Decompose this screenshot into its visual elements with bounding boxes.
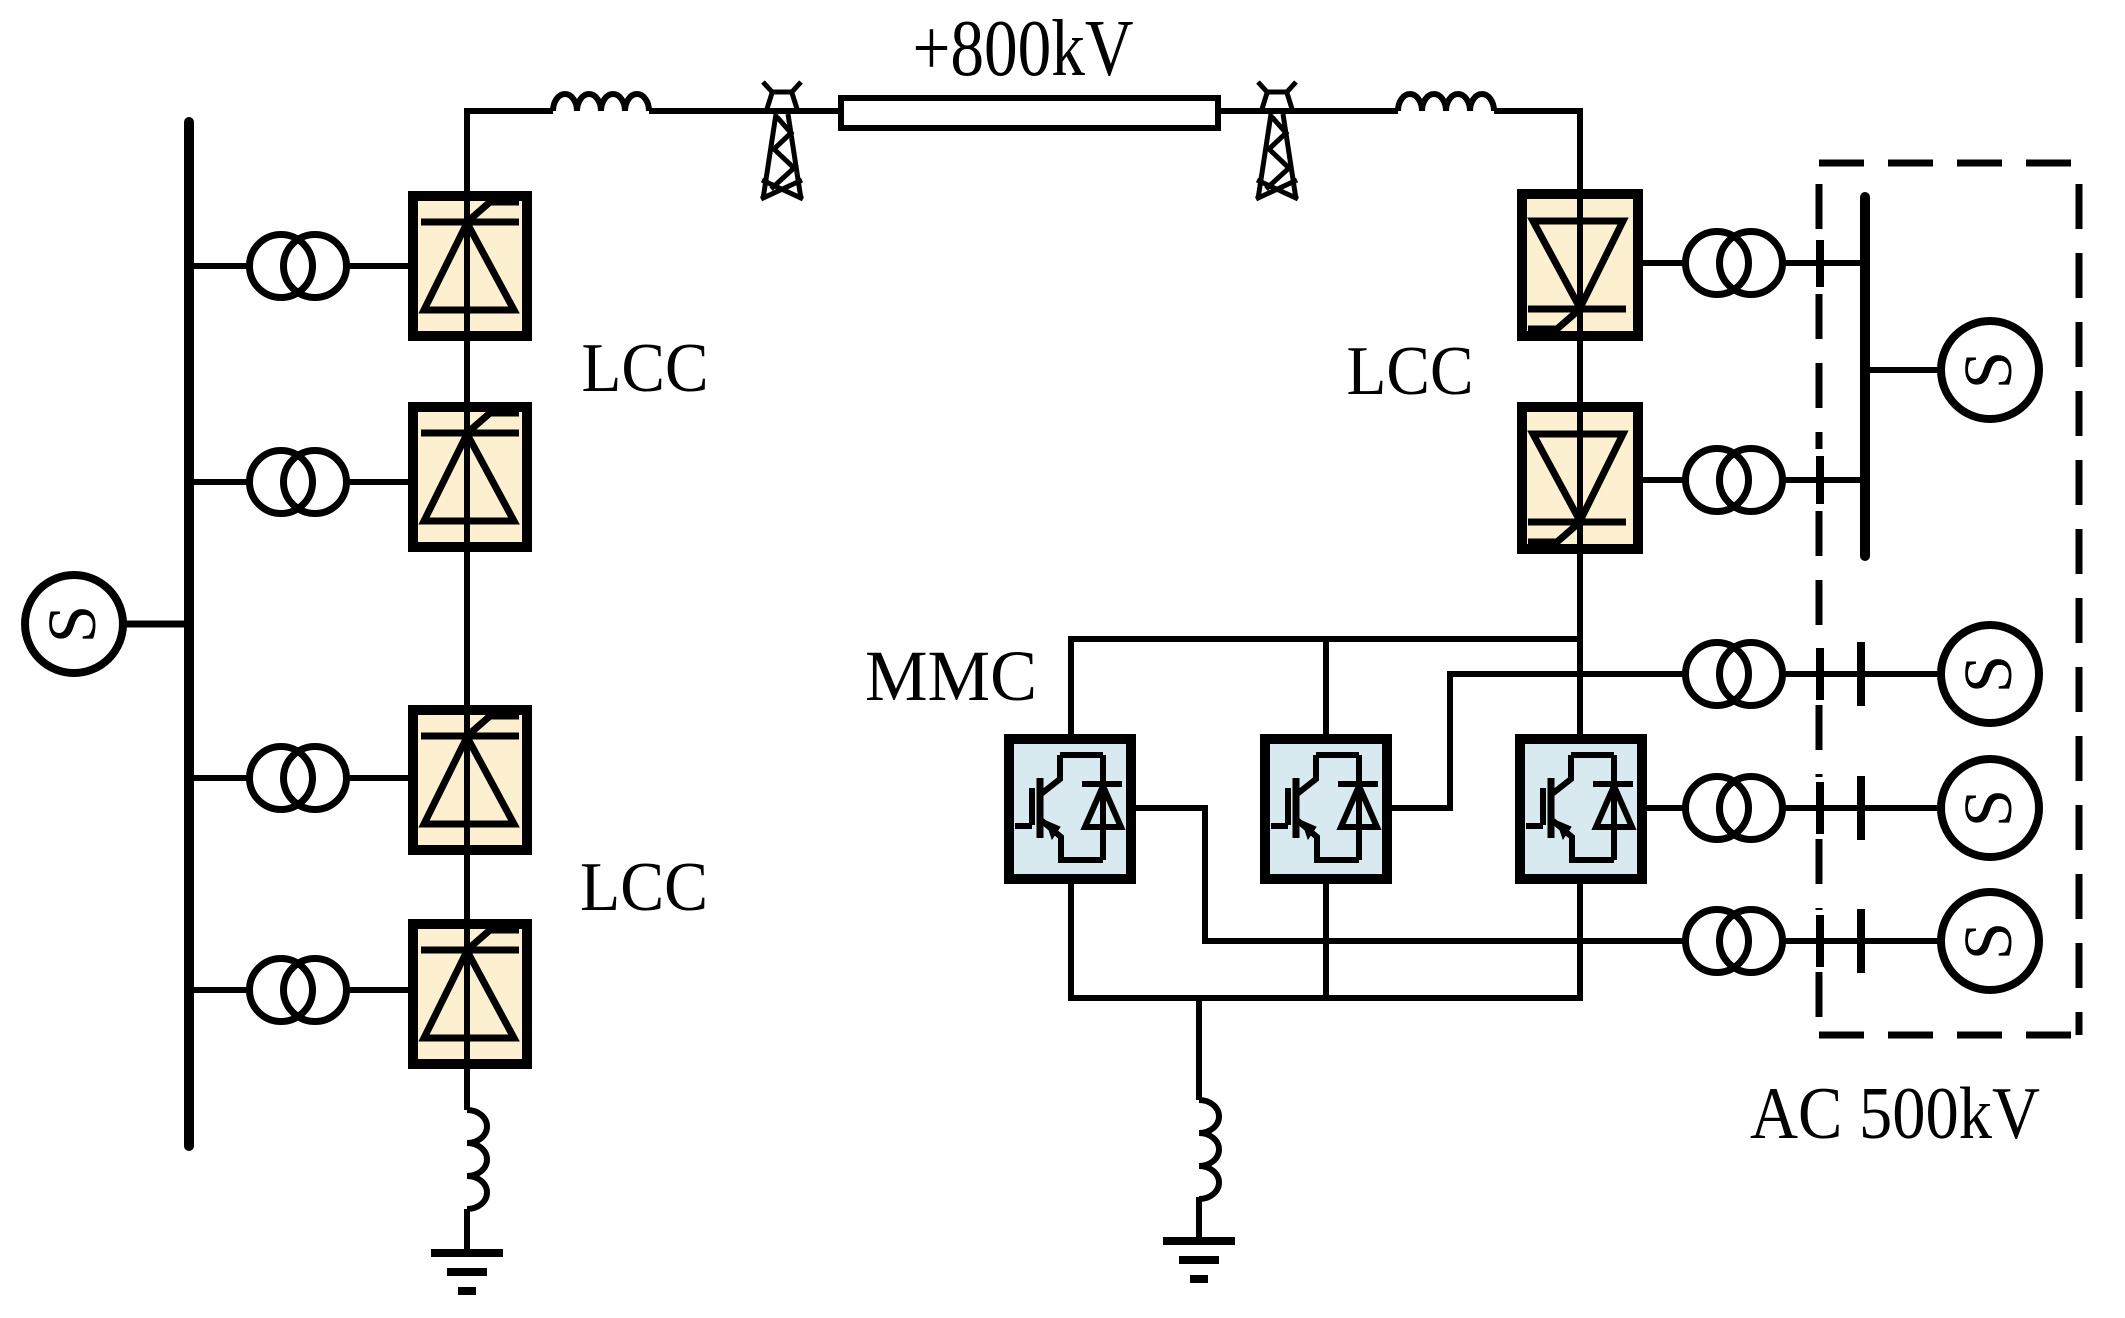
breaker tick TR2 <box>1816 456 1824 504</box>
wire: transformer TM2 to source S3 <box>1785 805 1941 811</box>
transformer TM2 <box>1686 777 1783 840</box>
wire: lower bus ground tap <box>1196 998 1202 1100</box>
breaker ticks TM3 <box>1820 909 1861 973</box>
left AC bus <box>184 122 194 1146</box>
MMC submodule box M2 <box>1265 739 1387 879</box>
MMC submodule box M3 <box>1520 739 1642 879</box>
LCC converter box L3 <box>413 710 527 850</box>
transformer TR1 <box>1686 232 1783 295</box>
IGBT symbol M1 <box>1015 755 1122 860</box>
wire: transformer T3 to LCC L3 <box>349 775 413 781</box>
svg-text:MMC: MMC <box>865 636 1037 716</box>
IGBT symbol M3 <box>1526 755 1633 860</box>
wire: right bus to source S1 <box>1865 367 1941 373</box>
wire: coil to left ground <box>464 1209 470 1253</box>
transformer T2 <box>250 451 347 514</box>
transformer T1 <box>250 235 347 298</box>
svg-text:S: S <box>1950 351 2026 389</box>
wire: coil to right ground <box>1196 1197 1202 1241</box>
right AC bus <box>1860 197 1870 556</box>
source S3 circle <box>1941 759 2039 857</box>
wire: transformer T4 to LCC L4 <box>349 987 413 993</box>
transformer T3 <box>250 747 347 810</box>
wire: left bus to transformer T2 <box>189 479 247 485</box>
breaker tick TR1 <box>1816 240 1824 287</box>
wire: source S0 to left bus <box>121 621 189 628</box>
wire: left bus to transformer T4 <box>189 987 247 993</box>
smoothing reactor left <box>553 94 649 111</box>
thyristor symbol L3 <box>421 716 519 824</box>
LCC converter box L4 <box>413 924 527 1064</box>
wire: MMC M1 output jog to phase C <box>1131 808 1684 941</box>
wire: transformer T2 to LCC L2 <box>349 479 413 485</box>
LCC converter box L2 <box>413 407 527 547</box>
source S0 circle <box>25 575 123 673</box>
thyristor symbol R2 <box>1528 434 1626 542</box>
thyristor symbol L4 <box>421 930 519 1038</box>
transformer TM3 <box>1686 910 1783 973</box>
wire: top-left DC corner to reactor <box>464 108 553 114</box>
transformer TM1 <box>1686 643 1783 706</box>
wire: transformer TR1 to right bus <box>1785 260 1864 266</box>
wire: DC line to right reactor <box>1218 108 1398 114</box>
LCC converter box R1 <box>1522 194 1638 336</box>
wire: upper bus to MMC M1 <box>1068 636 1074 739</box>
wire: transformer T1 to LCC L1 <box>349 263 413 269</box>
thyristor symbol R1 <box>1528 221 1626 329</box>
wire: LCC R2 to transformer TR2 <box>1638 477 1684 483</box>
LCC converter box L1 <box>413 196 527 336</box>
MMC submodule box M1 <box>1009 739 1131 879</box>
wire: transformer TR2 to right bus <box>1785 477 1864 483</box>
transformer TR2 <box>1686 449 1783 512</box>
wire: MMC M3 output to phase B <box>1642 805 1684 811</box>
AC 500kV dashed boundary box <box>1819 160 2079 167</box>
transmission tower 1 <box>761 82 803 199</box>
wire: MMC M1 bottom to lower bus <box>1068 879 1074 1001</box>
wire: reactor to DC overhead line <box>649 108 841 114</box>
source S2 circle <box>1941 625 2039 723</box>
MMC upper DC bus <box>1071 636 1580 642</box>
wire: upper bus to MMC M2 <box>1323 639 1329 739</box>
MMC lower DC bus <box>1071 995 1580 1001</box>
wire: left DC pole riser through LCC stack <box>464 111 470 1110</box>
wire: left bus to transformer T1 <box>189 263 247 269</box>
svg-text:+800kV: +800kV <box>913 5 1134 93</box>
wire: MMC M2 output jog to phase A <box>1387 674 1684 808</box>
source S1 circle <box>1941 321 2039 419</box>
DC overhead line bar <box>841 98 1218 128</box>
svg-text:AC 500kV: AC 500kV <box>1750 1073 2040 1155</box>
svg-text:LCC: LCC <box>580 849 708 926</box>
thyristor symbol L2 <box>421 413 519 521</box>
smoothing reactor right <box>1398 94 1494 111</box>
svg-text:S: S <box>1950 789 2026 827</box>
svg-text:LCC: LCC <box>582 330 709 407</box>
wire: right DC pole riser <box>1577 108 1583 739</box>
MMC grounding reactor <box>1199 1100 1219 1199</box>
svg-text:S: S <box>1950 655 2026 693</box>
source S4 circle <box>1941 892 2039 990</box>
wire: LCC R1 to transformer TR1 <box>1638 260 1684 266</box>
transformer T4 <box>250 959 347 1022</box>
ground symbol right <box>1163 1241 1235 1279</box>
LCC converter box R2 <box>1522 407 1638 549</box>
wire: transformer TM1 to source S2 <box>1785 671 1941 677</box>
svg-text:S: S <box>34 605 110 643</box>
wire: left bus to transformer T3 <box>189 775 247 781</box>
wire: transformer TM3 to source S4 <box>1785 938 1941 944</box>
breaker ticks TM1 <box>1820 642 1861 706</box>
transmission tower 2 <box>1256 82 1298 199</box>
wire: reactor to right DC pole corner <box>1494 108 1583 114</box>
thyristor symbol L1 <box>421 202 519 310</box>
breaker ticks TM2 <box>1820 776 1861 840</box>
ground symbol left <box>431 1253 503 1291</box>
svg-text:S: S <box>1950 922 2026 960</box>
svg-text:LCC: LCC <box>1347 333 1474 410</box>
IGBT symbol M2 <box>1271 755 1378 860</box>
wire: MMC M2 bottom to lower bus <box>1323 879 1329 998</box>
wire: MMC M3 bottom to lower bus <box>1577 879 1583 1001</box>
left pole reactor to ground <box>467 1110 487 1209</box>
